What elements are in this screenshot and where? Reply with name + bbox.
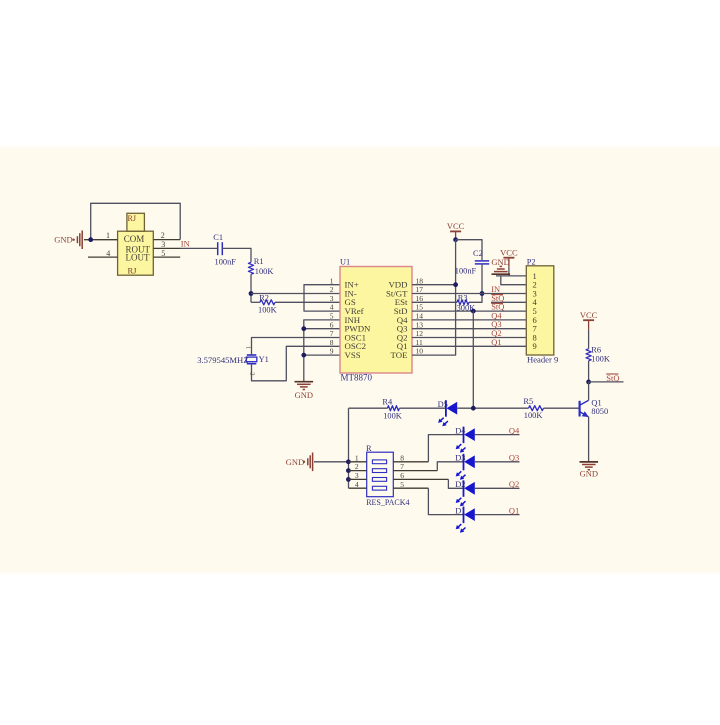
svg-text:Q1: Q1 xyxy=(509,505,519,515)
RJ pin 2 xyxy=(153,239,180,241)
svg-text:10: 10 xyxy=(416,347,424,356)
svg-text:R2: R2 xyxy=(259,294,269,303)
svg-text:1: 1 xyxy=(330,276,334,285)
wire IN net from RJ pin 3 xyxy=(181,247,218,249)
svg-text:R3: R3 xyxy=(458,293,468,302)
wire C2 to St/GT and R3 xyxy=(469,264,482,302)
wire P2 pin 2 xyxy=(501,276,527,285)
res pack pin 5 xyxy=(393,487,428,489)
res pack pin 6 xyxy=(393,478,448,480)
wire U1 Q3 pin 13 to P2 pin 7 xyxy=(412,328,526,330)
svg-text:TOE: TOE xyxy=(391,350,408,360)
wire emitter to ground xyxy=(588,417,590,462)
wire LED bias row left xyxy=(349,407,388,409)
svg-text:13: 13 xyxy=(416,320,424,329)
op-amp U1 MT8870 body xyxy=(340,267,412,374)
svg-text:RJ: RJ xyxy=(128,266,138,276)
wire VCC to C2 xyxy=(456,240,482,261)
wire res pack pin 6 to D2 xyxy=(448,479,463,488)
svg-text:100K: 100K xyxy=(591,354,610,363)
svg-text:8050: 8050 xyxy=(591,407,608,416)
svg-text:GND: GND xyxy=(54,235,72,245)
LED D3 xyxy=(463,454,465,471)
capacitor C2 xyxy=(475,260,489,262)
res pack element 4 xyxy=(372,486,386,490)
svg-text:6: 6 xyxy=(400,471,404,480)
ground GND below U1 VSS xyxy=(295,381,314,383)
wire U1 VDD pin 18 xyxy=(412,284,456,286)
wire D1 to Q1 xyxy=(475,514,520,516)
res pack pin 1 xyxy=(349,461,367,463)
svg-text:COM: COM xyxy=(124,234,145,244)
junction res pack pin 1 xyxy=(346,459,351,464)
svg-text:U1: U1 xyxy=(340,257,350,266)
resistor pack R RES_PACK4 body xyxy=(367,452,394,497)
wire res pack pin 8 to D4 xyxy=(428,435,463,462)
svg-text:100K: 100K xyxy=(383,411,402,420)
svg-text:RJ: RJ xyxy=(128,214,136,223)
wire collector xyxy=(588,382,590,401)
crystal Y1 3.579545MHZ xyxy=(247,354,256,356)
svg-text:Header 9: Header 9 xyxy=(527,354,558,364)
wire res pack pin 5 to D1 xyxy=(428,488,463,514)
svg-text:3: 3 xyxy=(330,294,334,303)
res pack element 3 xyxy=(372,478,386,482)
LED D2 xyxy=(463,480,465,497)
junction at RJ pin 1 xyxy=(88,237,93,242)
svg-text:17: 17 xyxy=(416,285,424,294)
svg-text:P2: P2 xyxy=(527,257,536,266)
svg-text:IN: IN xyxy=(181,238,190,248)
svg-text:D3: D3 xyxy=(455,454,465,463)
svg-text:Q3: Q3 xyxy=(509,453,519,463)
wire D5 to R5 xyxy=(457,407,528,409)
svg-text:100nF: 100nF xyxy=(455,267,477,276)
resistor R4 xyxy=(387,406,399,411)
svg-text:GND: GND xyxy=(286,457,304,467)
svg-text:R1: R1 xyxy=(254,257,264,266)
junction R1/R2/IN- xyxy=(249,291,254,296)
wire D3 to Q3 xyxy=(475,461,520,463)
svg-text:6: 6 xyxy=(330,320,334,329)
wire INH PWDN VSS bus xyxy=(304,320,340,382)
svg-text:100K: 100K xyxy=(255,267,274,276)
svg-text:GND: GND xyxy=(295,390,313,400)
svg-text:100nF: 100nF xyxy=(215,257,237,266)
svg-text:5: 5 xyxy=(400,480,404,489)
wire R5 to Q1 base xyxy=(544,407,579,409)
wire StD down to LED D5 row xyxy=(472,311,474,408)
svg-text:D4: D4 xyxy=(455,426,466,435)
svg-text:R6: R6 xyxy=(591,346,601,355)
wire VCC down to TOE pin 10 xyxy=(412,240,456,355)
svg-text:14: 14 xyxy=(416,312,424,321)
junction res pack pin 2 xyxy=(346,468,351,473)
svg-text:9: 9 xyxy=(533,341,537,351)
wire U1 St/GT pin 17 to P2 pin 3 xyxy=(412,293,526,295)
svg-text:Q4: Q4 xyxy=(509,425,520,435)
svg-text:Q2: Q2 xyxy=(509,479,519,489)
res pack pin 4 xyxy=(349,487,367,489)
wire D2 to Q2 xyxy=(475,487,520,489)
svg-text:D1: D1 xyxy=(455,506,465,515)
svg-text:100K: 100K xyxy=(258,305,277,314)
junction C2 St/GT xyxy=(480,291,485,296)
junction collector node xyxy=(586,380,591,385)
wire U1 pin 6 PWDN xyxy=(304,328,340,330)
svg-text:2: 2 xyxy=(355,462,359,471)
svg-text:3: 3 xyxy=(355,471,359,480)
RJ pin 3 xyxy=(153,247,180,249)
svg-text:1: 1 xyxy=(244,346,251,349)
resistor R6 xyxy=(586,349,591,361)
res pack element 1 xyxy=(372,460,386,464)
svg-text:MT8870: MT8870 xyxy=(341,373,373,383)
svg-text:GND: GND xyxy=(580,469,598,479)
svg-text:Y1: Y1 xyxy=(259,355,269,364)
svg-text:VSS: VSS xyxy=(345,350,361,360)
svg-text:9: 9 xyxy=(330,347,334,356)
svg-text:RES_PACK4: RES_PACK4 xyxy=(366,498,409,507)
vertical wire R4 to res pack pins xyxy=(348,408,350,488)
wire U1 IN+ to VRef xyxy=(304,285,340,311)
junction D5 StD xyxy=(471,406,476,411)
svg-text:Q1: Q1 xyxy=(491,337,501,347)
svg-text:D2: D2 xyxy=(455,480,465,489)
svg-text:R5: R5 xyxy=(523,397,533,406)
transistor Q1 8050 xyxy=(578,401,580,417)
wire crystal top to U1 OSC1 xyxy=(252,338,341,356)
RJ pin 4 xyxy=(88,256,118,258)
svg-text:4: 4 xyxy=(106,249,110,258)
ground GND at Q1 emitter xyxy=(580,461,599,463)
LED D4 xyxy=(463,427,465,444)
wire R1 to IN- node xyxy=(250,274,252,302)
svg-text:5: 5 xyxy=(161,249,165,258)
svg-text:18: 18 xyxy=(416,276,424,285)
LED D1 xyxy=(463,507,465,523)
connector RJ (phone jack) xyxy=(118,231,154,275)
wire P2 pin 4 StQ stub xyxy=(491,301,526,303)
capacitor C1 xyxy=(217,242,219,255)
svg-text:4: 4 xyxy=(330,303,334,312)
svg-text:7: 7 xyxy=(400,462,404,471)
resistor R5 xyxy=(529,406,544,411)
svg-text:8: 8 xyxy=(400,453,404,462)
wire IN- to U1 pin 2 xyxy=(251,293,340,295)
svg-text:1: 1 xyxy=(106,231,110,240)
wire R2 to U1 pin 3 GS xyxy=(275,301,340,303)
svg-text:VCC: VCC xyxy=(580,310,598,320)
res pack pin 8 xyxy=(393,461,428,463)
res pack pin 2 xyxy=(349,470,367,472)
svg-text:2: 2 xyxy=(330,285,334,294)
svg-text:11: 11 xyxy=(416,338,423,347)
svg-text:GND: GND xyxy=(491,257,509,267)
svg-text:16: 16 xyxy=(416,294,424,303)
svg-text:15: 15 xyxy=(416,303,424,312)
connector P2 Header 9 xyxy=(526,266,554,355)
res pack pin 3 xyxy=(349,478,367,480)
wire P2 pin 1 xyxy=(496,275,526,277)
svg-text:12: 12 xyxy=(416,329,424,338)
wire R6 to collector node xyxy=(588,361,590,382)
svg-text:C2: C2 xyxy=(473,249,483,258)
svg-text:1: 1 xyxy=(355,453,359,462)
svg-text:3.579545MHZ: 3.579545MHZ xyxy=(197,355,248,365)
svg-text:VCC: VCC xyxy=(447,221,465,231)
wire U1 Q2 pin 12 to P2 pin 8 xyxy=(412,337,526,339)
svg-text:8: 8 xyxy=(330,338,334,347)
wire R4 to D5 xyxy=(399,407,446,409)
junction VDD xyxy=(453,282,458,287)
svg-text:2: 2 xyxy=(161,231,165,240)
svg-text:LOUT: LOUT xyxy=(126,252,150,262)
junction res pack pin 3 xyxy=(346,477,351,482)
RJ pin 5 xyxy=(153,256,180,258)
svg-text:R: R xyxy=(366,444,372,453)
svg-text:C1: C1 xyxy=(213,233,223,242)
wire StQ stub xyxy=(589,381,624,383)
svg-text:100K: 100K xyxy=(524,411,543,420)
resistor R2 xyxy=(251,301,260,303)
wire D4 to Q4 xyxy=(475,434,520,436)
res pack pin 7 xyxy=(393,470,437,472)
wire res pack pin 7 to D3 xyxy=(437,462,463,471)
junction VCC node xyxy=(453,237,458,242)
svg-text:5: 5 xyxy=(330,312,334,321)
wire U1 Q1 pin 11 to P2 pin 9 xyxy=(412,345,526,347)
wire loop RJ pin1 to pin2 xyxy=(91,203,181,239)
RJ pin 1 xyxy=(84,239,118,241)
wire U1 pin 9 VSS xyxy=(304,354,340,356)
wire crystal bottom to U1 OSC2 xyxy=(252,346,341,381)
resistor R3 xyxy=(412,301,457,303)
wire U1 StD pin 15 to P2 pin 5 xyxy=(412,310,526,312)
resistor R1 xyxy=(248,262,253,274)
svg-text:R4: R4 xyxy=(382,398,393,407)
svg-text:4: 4 xyxy=(355,480,359,489)
wire U1 Q4 pin 14 to P2 pin 6 xyxy=(412,319,526,321)
junction StD xyxy=(471,309,476,314)
svg-text:D5: D5 xyxy=(438,400,448,409)
LED D5 xyxy=(445,400,447,417)
res pack element 2 xyxy=(372,469,386,473)
wire GND to res pack xyxy=(314,461,348,463)
svg-text:7: 7 xyxy=(330,329,334,338)
wire C1 to R1 xyxy=(222,248,251,262)
